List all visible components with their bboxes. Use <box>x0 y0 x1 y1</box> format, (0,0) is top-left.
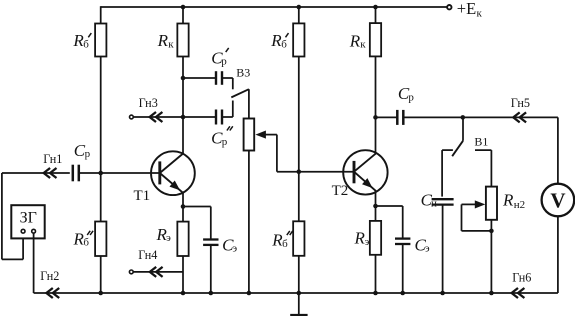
switch B1 right contact <box>475 150 491 187</box>
resistor Rб'2 (stage 2 upper bias) <box>293 23 304 56</box>
svg-text:б: б <box>83 237 89 249</box>
wire wiper to bottom terminal <box>462 204 492 231</box>
svg-text:э: э <box>166 232 171 244</box>
wire top rail to Rк2 <box>375 7 377 23</box>
label Rб''2 <box>271 231 292 250</box>
switch B1 blade <box>452 141 463 156</box>
junction potentiometer / ground rail <box>247 291 252 296</box>
junction collector / Cр' branch <box>181 76 186 81</box>
wire Гн3 line <box>134 116 216 118</box>
wire top rail to Rб'2 <box>298 7 300 23</box>
node T2 emitter <box>373 204 378 209</box>
wire input line to T1 base <box>101 172 160 174</box>
junction collector / Cр'' branch <box>181 115 186 120</box>
resistor Rб'1 (stage 1 upper bias) <box>95 24 106 57</box>
svg-text:Гн6: Гн6 <box>512 270 531 284</box>
resistor Rб''2 (stage 2 lower bias) <box>293 221 304 256</box>
label Cр'' <box>211 126 233 148</box>
resistor Rк1 (stage 1 collector) <box>177 24 188 57</box>
wire Cэ2 to ground rail <box>402 244 404 293</box>
wire T1 emitter down <box>182 192 184 207</box>
label B1 <box>474 134 488 148</box>
jack Гн4 terminal <box>129 270 133 274</box>
label Гн3 <box>139 96 158 110</box>
label Rб'2 <box>270 31 288 50</box>
capacitor Cр input coupling <box>73 165 79 182</box>
label Rэ2 <box>354 229 370 248</box>
capacitor Cэ2 (emitter bypass) <box>395 239 410 244</box>
bottom ground rail <box>34 292 558 294</box>
svg-text:R: R <box>157 31 169 50</box>
wire Rб''2 to ground rail <box>298 256 300 293</box>
wire Rэ1 to ground rail <box>182 256 184 293</box>
voltmeter V <box>542 184 575 217</box>
wire Гн1 input line <box>2 172 70 174</box>
label Cр' <box>211 48 229 68</box>
svg-text:э: э <box>365 236 370 248</box>
wire output to B1 pivot <box>462 117 464 140</box>
junction Cн / ground rail <box>440 291 445 296</box>
wire Rk1 to T1 collector <box>182 57 184 155</box>
switch B1 left contact <box>442 150 453 197</box>
junction Rэ1 / ground rail <box>181 291 186 296</box>
junction collector / output Cр <box>373 115 378 120</box>
label Rб''1 <box>73 229 94 248</box>
connector Гн5 chevrons <box>513 112 526 122</box>
connector Гн2 chevrons <box>46 288 59 298</box>
wire Rб''1 to ground rail <box>100 256 102 293</box>
capacitor Cр'' (lower coupling) <box>216 110 222 125</box>
potentiometer wiper arrow <box>255 131 277 139</box>
node base T1 junction <box>98 171 103 176</box>
transistor T1 <box>151 151 195 195</box>
svg-text:э: э <box>232 243 237 255</box>
wire wiper to T2 base <box>277 135 354 172</box>
label Rэ1 <box>156 225 172 244</box>
node base T2 junction <box>297 169 302 174</box>
wire emitter to Rэ1 <box>182 207 184 222</box>
wire Cр'' to switch <box>222 116 233 118</box>
svg-text:б: б <box>282 238 288 250</box>
connector Гн3 chevrons <box>150 112 163 122</box>
wire Гн4 line <box>134 271 184 273</box>
junction top rail / Rб'2 <box>297 5 302 10</box>
label Гн6 <box>512 270 531 284</box>
svg-text:р: р <box>221 56 227 68</box>
junction Rб''1 / ground rail <box>98 291 103 296</box>
switch B3 blade <box>231 89 249 97</box>
svg-text:б: б <box>83 39 89 51</box>
wire input left drop <box>1 173 3 259</box>
junction Rн2 / ground rail <box>489 291 494 296</box>
label Rк2 <box>349 31 367 50</box>
ground <box>290 293 307 315</box>
label Cэ1 <box>222 235 237 254</box>
svg-text:Т2: Т2 <box>332 183 349 199</box>
wire potentiometer bottom to ground rail <box>248 151 250 294</box>
label Rн2 <box>502 190 525 210</box>
svg-text:Т1: Т1 <box>134 188 151 204</box>
svg-text:н2: н2 <box>514 199 525 211</box>
potentiometer body <box>244 119 255 151</box>
wire Cэ1 to ground rail <box>210 245 212 293</box>
svg-text:V: V <box>550 189 565 213</box>
label T2 <box>332 183 349 199</box>
generator terminal right <box>32 229 36 233</box>
svg-text:R: R <box>349 31 361 50</box>
wire T2 emitter down <box>375 190 377 206</box>
wire Cр to base node <box>79 172 101 174</box>
capacitor Cр' (upper coupling) <box>216 71 222 85</box>
wire output line left <box>376 116 398 118</box>
top power rail +Ek <box>101 6 449 8</box>
junction wiper / Rн2 bottom <box>489 229 494 234</box>
svg-text:+E: +E <box>457 0 476 18</box>
svg-text:н: н <box>431 198 437 210</box>
wire Rн2 to ground rail <box>490 220 492 293</box>
wire Rб'1 to base node <box>100 57 102 174</box>
svg-text:Гн1: Гн1 <box>43 152 62 166</box>
label B3 <box>236 66 250 80</box>
svg-text:к: к <box>168 39 174 51</box>
wire blade to potentiometer <box>248 89 250 118</box>
svg-text:э: э <box>425 243 430 255</box>
capacitor Cэ1 (emitter bypass) <box>203 240 218 245</box>
wire base node to Rб''2 <box>298 172 300 222</box>
wire Cр' to switch top contact <box>222 78 233 89</box>
wire output line right <box>403 116 558 118</box>
wire Rб'2 to T2 base node <box>298 57 300 172</box>
svg-text:Гн2: Гн2 <box>40 269 59 283</box>
transistor T2 <box>343 150 387 194</box>
svg-text:ЗГ: ЗГ <box>20 209 37 226</box>
junction Cэ2 / ground rail <box>400 291 405 296</box>
label Гн4 <box>138 248 157 262</box>
label Гн5 <box>511 96 530 110</box>
label Гн2 <box>40 269 59 283</box>
svg-text:б: б <box>281 39 287 51</box>
generator ЗГ box <box>11 205 44 238</box>
label Rб'1 <box>72 31 91 50</box>
wire top rail to Rб'1 <box>100 6 102 23</box>
label Гн1 <box>43 152 62 166</box>
wire base node to Rб''1 <box>100 173 102 222</box>
resistor Rэ1 (stage 1 emitter) <box>177 222 188 256</box>
wire node to Cр' <box>183 77 216 79</box>
label Cэ2 <box>415 235 430 254</box>
svg-text:R: R <box>502 190 514 209</box>
wire generator right terminal to rail <box>33 233 35 293</box>
jack Гн3 terminal <box>130 115 134 119</box>
svg-text:Гн5: Гн5 <box>511 96 530 110</box>
resistor Rк2 (stage 2 collector) <box>370 23 381 56</box>
wire emitter to Rэ2 <box>375 206 377 221</box>
node T1 emitter <box>181 204 186 209</box>
+Ek supply terminal <box>447 0 482 20</box>
wire Rк2 to T2 collector <box>375 56 377 154</box>
label Cр input <box>74 141 91 160</box>
resistor Rб''1 (stage 1 lower bias) <box>95 222 106 257</box>
svg-text:Гн3: Гн3 <box>139 96 158 110</box>
wire Cн to ground rail <box>442 205 444 293</box>
Rн2 wiper arrow <box>462 200 486 208</box>
capacitor Cн (load capacitor) <box>432 199 454 204</box>
junction Cэ1 / ground rail <box>209 291 214 296</box>
switch B3 bottom contact stub <box>232 101 234 118</box>
wire Rэ2 to ground rail <box>375 255 377 293</box>
wire emitter node to Cэ2 <box>376 206 403 239</box>
resistor Rэ2 (stage 2 emitter) <box>370 221 381 255</box>
connector Гн4 chevrons <box>150 267 163 277</box>
svg-text:р: р <box>85 148 91 160</box>
wire top rail to Rk1 <box>182 7 184 24</box>
wire voltmeter to ground rail <box>557 216 559 293</box>
svg-text:к: к <box>477 8 483 20</box>
svg-text:Гн4: Гн4 <box>138 248 157 262</box>
junction Rб''2 / ground rail <box>297 291 302 296</box>
wire emitter node to Cэ1 <box>183 207 211 240</box>
connector Гн6 chevrons <box>512 288 525 298</box>
svg-text:В1: В1 <box>474 134 488 148</box>
label T1 <box>134 188 151 204</box>
junction output / B1 branch <box>461 115 466 120</box>
junction top rail / Rk1 <box>181 5 186 10</box>
svg-text:р: р <box>222 136 228 148</box>
label Rк1 <box>157 31 175 50</box>
generator terminal left <box>21 229 25 233</box>
svg-text:к: к <box>360 39 366 51</box>
svg-text:В3: В3 <box>236 66 250 80</box>
wire to generator left terminal <box>2 233 23 259</box>
label Cн <box>421 190 437 209</box>
connector Гн1 chevrons <box>44 168 57 178</box>
capacitor Cр output coupling <box>397 110 403 125</box>
wire output to voltmeter <box>557 117 559 183</box>
label Cр output <box>398 84 415 103</box>
junction top rail / Rк2 <box>373 5 378 10</box>
junction Rэ2 / ground rail <box>373 291 378 296</box>
svg-text:р: р <box>408 91 414 103</box>
rheostat Rн2 body <box>486 187 497 220</box>
